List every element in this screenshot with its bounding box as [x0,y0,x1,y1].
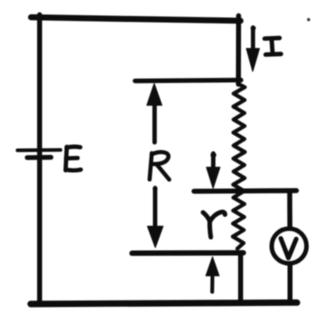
dimension arrow r up (below lower bar) [206,257,219,292]
label E [66,147,81,171]
wire left (battery branch) [37,15,42,303]
wire right drop (top wire down to resistor) [236,16,241,84]
ink speck [307,18,310,21]
voltmeter V1 body [272,229,307,264]
label V (inside meter) [281,238,296,258]
node bar: R extent top [135,78,241,83]
node bar: tap (wiper to voltmeter) [194,188,296,194]
label I [265,38,281,55]
dimension arrow R up [147,84,162,143]
wire voltmeter to bottom [288,266,293,303]
wire bottom (return to battery) [31,303,297,304]
label r [203,212,225,237]
wire top (battery + to resistor top) [31,17,241,21]
wire lower-bar drop (lower bar to bottom wire) [238,254,243,303]
resistor R (zigzag element) [233,84,245,249]
current arrow I [246,26,259,72]
dimension arrow r down (above tap bar) [207,152,220,188]
label R [150,152,170,179]
dimension arrow R down [148,186,164,247]
node bar: lower extent [132,250,243,256]
wire tap to voltmeter [287,192,292,228]
battery E plates [18,150,61,158]
